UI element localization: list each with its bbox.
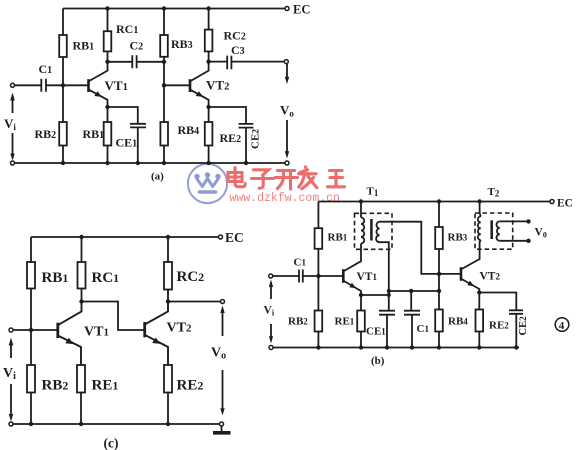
watermark char fa (299, 167, 317, 189)
wire RE2 leads (b) (478, 293, 480, 348)
wire T1 secondary top to VT2 base (380, 222, 462, 274)
svg-text:RB2: RB2 (35, 127, 57, 141)
wire RE1 leads (107, 107, 109, 163)
svg-text:CE2: CE2 (518, 316, 529, 336)
node emitter tee (387, 293, 391, 297)
node base VT2 (162, 83, 166, 87)
wire emitter VT1 to CE1 (108, 107, 138, 124)
wire VT2 collector to C3 (209, 61, 228, 63)
svg-text:RB3: RB3 (448, 232, 468, 244)
svg-text:(a): (a) (151, 171, 164, 183)
svg-text:EC: EC (293, 3, 310, 17)
wire RB4 leads (163, 85, 165, 163)
node collector VT1 (105, 60, 109, 64)
node base VT1 (61, 83, 65, 87)
ground (c) (221, 426, 223, 432)
node collector VT2 (206, 59, 210, 63)
wire T2 secondary bottom stub (500, 240, 529, 242)
node collector VT2 (c) (166, 299, 170, 303)
svg-text:RC1: RC1 (116, 22, 138, 36)
wire T1 secondary bottom down (380, 242, 389, 311)
terminal input bottom (c) (9, 422, 13, 426)
capacitor C3 (227, 56, 231, 70)
port Vi (c) (10, 343, 12, 358)
resistor RB4 (b) (435, 310, 443, 332)
wire RC1 leads (107, 9, 109, 62)
svg-text:(c): (c) (104, 436, 119, 450)
wire collector VT2 to output (c) (168, 301, 221, 303)
node rail-C1mid (b) (410, 345, 414, 349)
wire CE1 bottom lead (137, 127, 139, 163)
terminal input top (b) (269, 274, 273, 278)
transistor VT1 (a) (87, 79, 90, 92)
node rail-CE2 (244, 161, 248, 165)
capacitor CE2 (239, 124, 254, 128)
resistor RE2 (c) (164, 365, 172, 393)
wire RB1 leads (b) (317, 202, 319, 277)
wire RC2 leads (208, 9, 210, 62)
svg-text:EC: EC (225, 230, 244, 245)
node rail-RE1 (c) (79, 422, 83, 426)
watermark logo W dots (194, 174, 199, 179)
svg-text:RC1: RC1 (92, 270, 120, 286)
wire RE1 bottom lead (c) (80, 393, 82, 425)
svg-text:RE2: RE2 (489, 320, 509, 332)
wire input to base VT1 (c) (13, 329, 58, 331)
port Vi (b) (270, 284, 272, 299)
node collector VT1 (c) (79, 299, 83, 303)
resistor RC1 (104, 31, 112, 51)
svg-text:www.dzkfw.com.cn: www.dzkfw.com.cn (230, 192, 340, 205)
svg-text:RB3: RB3 (171, 37, 193, 51)
wire bottom rail (c) (13, 423, 220, 425)
label circled 4 (555, 318, 569, 332)
resistor RB2 (59, 122, 67, 146)
wire CE1 bottom lead (b) (386, 315, 388, 348)
node emitter VT2 (206, 105, 210, 109)
node rail-RE1 (b) (359, 345, 363, 349)
svg-text:RB1: RB1 (83, 127, 105, 141)
svg-text:RE2: RE2 (177, 378, 204, 394)
transformer T1 dashed box (355, 213, 393, 249)
wire RB3 leads (163, 9, 165, 62)
watermark logo underline bar (200, 190, 216, 194)
watermark char zi (252, 170, 274, 188)
wire emitter VT2 to CE2 (b) (479, 293, 516, 311)
port Vo (a) (286, 64, 288, 78)
transformer T2 dashed box (475, 213, 513, 249)
svg-text:C1: C1 (39, 62, 53, 76)
wire C1 to base VT1 (b) (303, 275, 344, 277)
terminal output top (c) (221, 300, 225, 304)
node rail-RE2 (206, 161, 210, 165)
svg-text:VT2: VT2 (480, 271, 501, 283)
node rail-RC2 (c) (166, 235, 170, 239)
node rail-RB2 (c) (29, 422, 33, 426)
transformer T2 primary lead (480, 202, 481, 217)
resistor RB1 (59, 35, 67, 57)
svg-text:VT1: VT1 (84, 325, 109, 340)
node rail-RE2 (b) (477, 345, 481, 349)
watermark char wang (328, 171, 345, 187)
terminal input top (a) (11, 83, 15, 87)
terminal input (c) (9, 328, 13, 332)
svg-text:RE1: RE1 (92, 378, 119, 394)
node rail-RB3 (162, 6, 166, 10)
svg-text:RE2: RE2 (220, 131, 242, 145)
node base VT2 column (437, 272, 441, 276)
wire RB3 leads (b) (438, 202, 440, 310)
wire RB1 leads (c) (30, 237, 32, 330)
node rail-RC1 (105, 6, 109, 10)
capacitor CE1 (b) (379, 311, 395, 315)
svg-text:CE1: CE1 (116, 136, 138, 150)
node rail-RC1 (c) (79, 235, 83, 239)
transistor VT2 (a) (189, 79, 192, 92)
transformer T2 secondary winding (496, 221, 499, 240)
watermark char kai (275, 171, 298, 190)
resistor RE1 (b) (357, 311, 365, 332)
wire T2 secondary top stub (500, 220, 529, 222)
node base VT1 (c) (29, 328, 33, 332)
wire node down to base VT2 (163, 62, 165, 86)
svg-text:CE2: CE2 (250, 129, 262, 149)
capacitor C1 input (b) (299, 270, 303, 283)
WATERMARK (188, 164, 345, 205)
resistor RE2 (b) (476, 310, 484, 332)
capacitor CE2 (b) (509, 310, 523, 314)
terminal input bottom (b) (269, 346, 273, 350)
capacitor CE1 (130, 124, 146, 128)
transformer T1 secondary winding (376, 222, 379, 243)
wire bottom rail (a) (15, 162, 286, 164)
wire RC2 leads (c) (167, 237, 169, 302)
wire bias tee to RB3 column (389, 290, 439, 292)
terminal EC (b) (550, 200, 554, 204)
svg-text:RB2: RB2 (288, 316, 308, 328)
svg-text:RE1: RE1 (335, 316, 355, 328)
svg-text:RB1: RB1 (73, 39, 95, 53)
transformer T2 primary winding (478, 217, 481, 241)
svg-text:RB4: RB4 (448, 316, 468, 328)
resistor RC1 (c) (78, 262, 86, 289)
terminal EC (a) (285, 7, 289, 11)
wire bottom rail (b) (273, 347, 519, 349)
node rail-T1 (359, 199, 363, 203)
wire RE1 leads (b) (360, 295, 362, 348)
transformer T1 primary lead (360, 202, 362, 218)
transformer T1 primary winding (361, 218, 364, 244)
node rail-RB2 (61, 161, 65, 165)
wire top supply rail (a) (63, 8, 285, 10)
wire RC1 leads (c) (81, 237, 83, 302)
port Vo (c) (222, 310, 224, 336)
terminal T2 output top (526, 219, 530, 223)
capacitor C1 (41, 79, 46, 92)
node rail-CE1 (136, 161, 140, 165)
wire input to C1 (b) (273, 275, 299, 277)
resistor RB2 (c) (27, 365, 35, 393)
svg-text:CE1: CE1 (366, 326, 386, 338)
capacitor C1 middle (b) (404, 311, 420, 315)
svg-text:RB1: RB1 (328, 232, 348, 244)
resistor RE2 (205, 122, 213, 146)
wire RB2 leads (b) (317, 276, 319, 348)
node emitter VT1 (b) (359, 293, 363, 297)
wire RB4 bottom lead (b) (438, 332, 440, 348)
node base VT1 (b) (316, 274, 320, 278)
node C2-RB3 (162, 60, 166, 64)
wire RE2 leads (208, 107, 210, 163)
svg-text:RC2: RC2 (224, 29, 246, 43)
terminal output bottom (a) (285, 161, 289, 165)
resistor RB3 (b) (435, 227, 443, 249)
transistor VT1 (c) (56, 323, 59, 338)
svg-text:VT2: VT2 (167, 321, 192, 336)
wire VT1 collector to VT2 base (c) (82, 302, 145, 331)
resistor RB3 (160, 35, 168, 57)
wire RE2 bottom lead (c) (167, 393, 169, 425)
svg-text:C2: C2 (130, 39, 144, 53)
terminal EC (c) (219, 235, 223, 239)
resistor RB1 (b) (315, 228, 323, 249)
resistor RB1 (c) (27, 262, 35, 289)
node rail-RB4 (b) (437, 345, 441, 349)
wire C2 to node RB3 (137, 61, 164, 63)
transformer T1 core (370, 219, 373, 241)
svg-text:4: 4 (559, 320, 565, 332)
node rail-RB3 (437, 199, 441, 203)
node rail-RB2 (b) (316, 345, 320, 349)
svg-text:RB4: RB4 (178, 123, 200, 137)
node emitter VT1 (105, 105, 109, 109)
terminal output bottom (c) (220, 422, 224, 426)
svg-text:C1: C1 (294, 257, 307, 269)
node emitter VT2 (b) (477, 290, 481, 294)
transistor VT1 (b) (342, 269, 345, 283)
terminal input bottom (a) (11, 161, 15, 165)
wire CE2 bottom lead (b) (515, 314, 517, 348)
node C1mid top (409, 289, 413, 293)
node rail-RB4 (162, 161, 166, 165)
svg-text:RB1: RB1 (42, 270, 69, 286)
svg-text:VT1: VT1 (357, 271, 378, 283)
wire top supply rail (c) (31, 236, 219, 238)
resistor RB2 (b) (315, 311, 323, 332)
svg-text:RC2: RC2 (177, 269, 205, 285)
terminal T2 output bottom (526, 239, 530, 243)
wire emitter VT2 to CE2 (209, 107, 246, 124)
wire emitter VT1 to CE1 (b) (361, 294, 389, 296)
svg-text:C3: C3 (231, 43, 245, 57)
wire C3 to output (231, 61, 284, 63)
wire VT1 collector to C2 (108, 61, 133, 63)
port Vi (a) (12, 98, 14, 113)
transformer T2 core (490, 220, 493, 239)
capacitor C2 (132, 55, 136, 68)
svg-text:(b): (b) (371, 355, 385, 367)
resistor RB4 (160, 122, 168, 146)
node tee-vertical (387, 289, 391, 293)
node rail-CE1 (b) (385, 345, 389, 349)
resistor RE1 (labelled RB1) (104, 122, 112, 146)
watermark char dian (228, 168, 245, 187)
node RB3-RB4 column bias (437, 289, 441, 293)
node rail-RE1 (105, 161, 109, 165)
node rail-RC2 (206, 6, 210, 10)
svg-text:RB2: RB2 (42, 378, 69, 394)
svg-text:T1: T1 (367, 186, 379, 199)
watermark logo W glyph (197, 179, 218, 187)
resistor RC2 (c) (164, 262, 172, 290)
resistor RE1 (c) (77, 365, 85, 393)
node rail-T2 (477, 199, 481, 203)
wire RB2 leads (c) (30, 330, 32, 424)
wire base VT2 (164, 84, 190, 86)
wire top supply rail (b) (318, 201, 550, 203)
svg-text:C1: C1 (417, 323, 430, 335)
transistor VT2 (c) (143, 322, 146, 337)
wire C1 to base VT1 (46, 84, 89, 86)
resistor RC2 (205, 30, 213, 52)
wire C1 middle leads (b) (410, 291, 413, 348)
terminal output top (a) (284, 60, 288, 64)
watermark logo circle (188, 164, 227, 203)
svg-text:EC: EC (557, 198, 573, 210)
wire RB2 leads (62, 85, 64, 163)
svg-text:T2: T2 (488, 186, 500, 199)
wire CE2 bottom lead (245, 128, 247, 163)
wire input to C1 (15, 84, 42, 86)
wire RB1 leads (62, 9, 64, 86)
node rail-RE2 (c) (166, 422, 170, 426)
transistor VT2 (b) (460, 267, 463, 281)
node rail-CE2 (b) (514, 345, 518, 349)
